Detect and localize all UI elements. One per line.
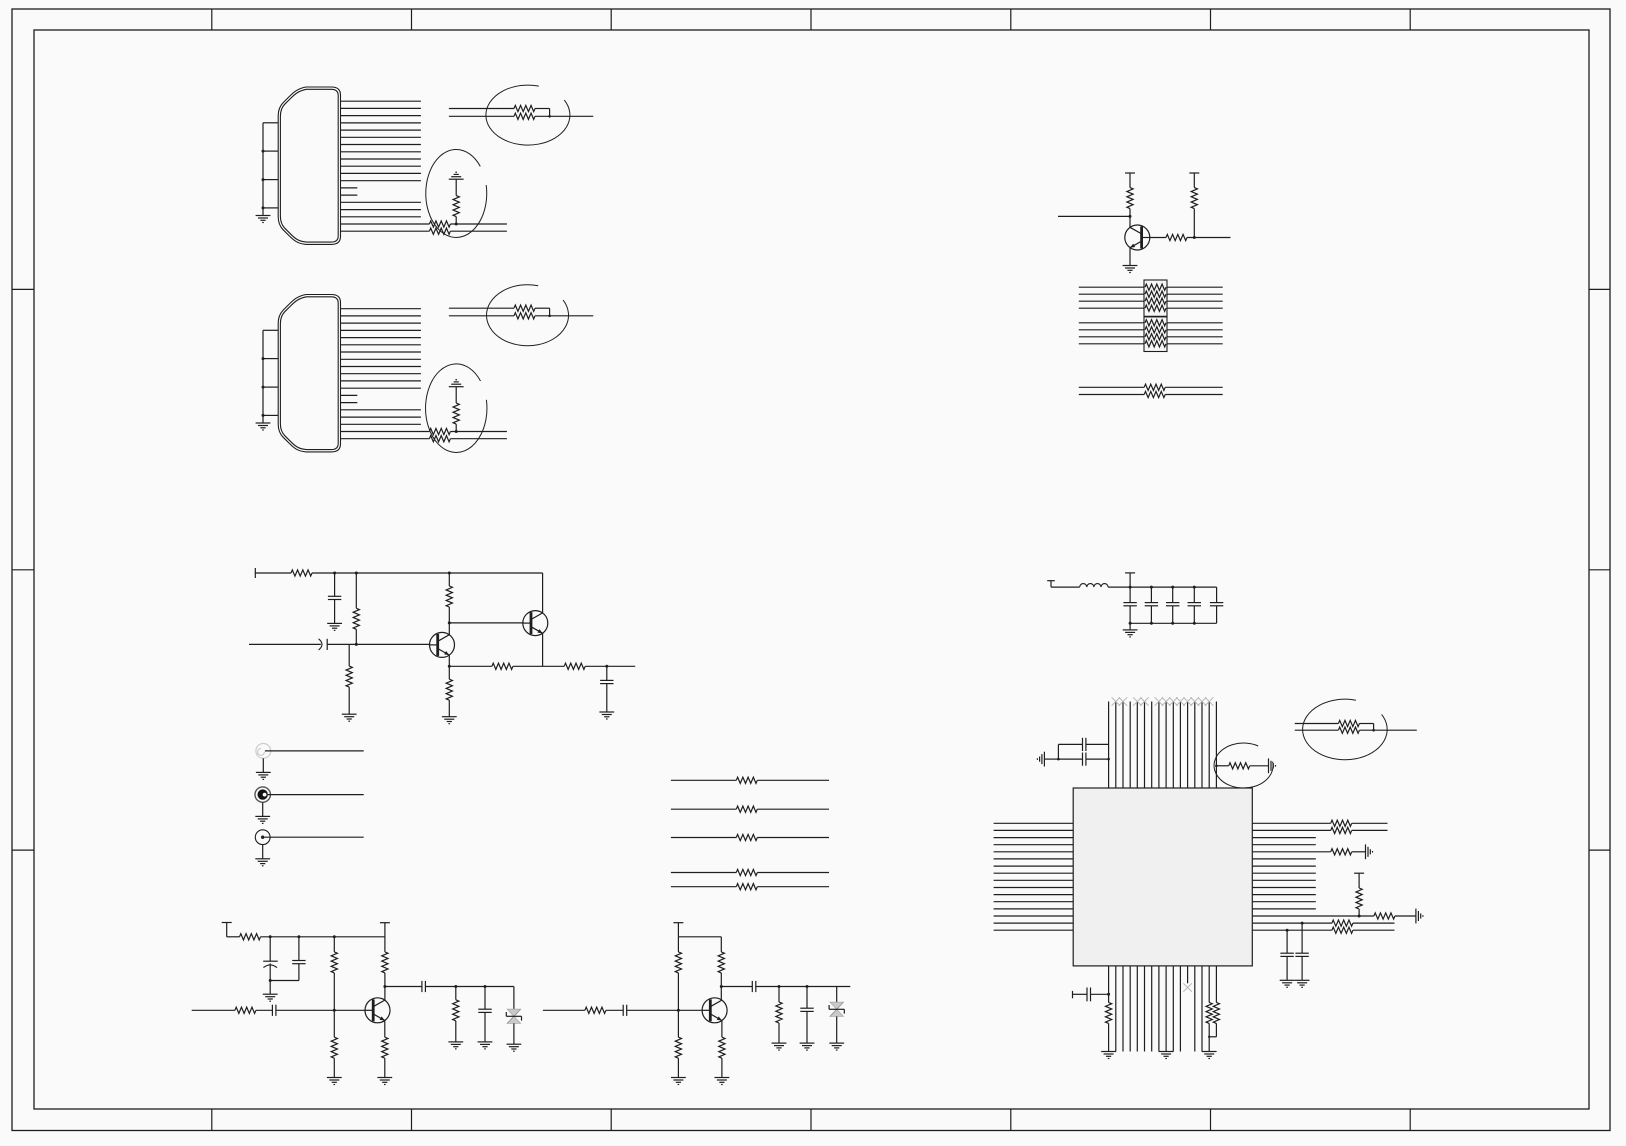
resistor R6 <box>1144 384 1165 390</box>
connector J2 pin 19 wire (right of resistor) <box>450 438 507 440</box>
transistor Q6 <box>430 632 455 657</box>
wire mid line 4 left <box>671 872 736 874</box>
ground R65 <box>772 1042 787 1044</box>
connector J1 shield junction dots <box>262 150 265 153</box>
wire R12 bottom to Q6 collector <box>448 607 450 635</box>
transistor Q7 <box>523 611 548 636</box>
no-connect x on U1 top pin 2 <box>1112 697 1120 705</box>
resistor R53 (input series) <box>235 1007 256 1013</box>
wire R11 top lead <box>355 573 357 608</box>
resistor R33 (pull-up, vertical) <box>1356 888 1362 909</box>
wire R61 bottom <box>720 973 722 1001</box>
highlight ellipse callout-A <box>486 85 570 145</box>
resistor R54 (emitter) <box>382 1037 388 1058</box>
wire mid line 5 right <box>757 886 829 888</box>
ground R13 <box>342 713 357 715</box>
wire C32 right lead <box>1091 993 1109 995</box>
junction dot amp1 base node <box>333 1009 336 1012</box>
connector J1 pin 7 <box>341 144 421 146</box>
wire R7 line left <box>1079 394 1144 396</box>
wire C34 left lead <box>1058 743 1082 745</box>
junction dot out C62 <box>806 985 809 988</box>
U1 right pin 11 <box>1252 894 1316 896</box>
wire C31 top lead <box>1301 923 1303 953</box>
wire Q5 collector to base-junction <box>1129 209 1131 228</box>
resistor lower callout-A <box>514 113 535 119</box>
wire RN line 2 right <box>1167 293 1223 295</box>
wire J3 signal <box>265 750 364 752</box>
connector J2 pin 11 <box>341 380 421 382</box>
junction dot callout-C <box>1372 729 1375 732</box>
wire Q6 collector to Q7 base <box>449 622 523 624</box>
U1 bottom pin 6 <box>1144 966 1146 1052</box>
wire lower right callout-C <box>1359 729 1416 731</box>
wire R5c top <box>1193 173 1195 188</box>
connector J2 shield ground <box>256 422 271 424</box>
ground filter <box>1123 629 1138 631</box>
ground bottom pin 15 <box>1202 1051 1217 1053</box>
wire R-J2 bottom lead <box>455 424 457 431</box>
connector J1 body outline outer <box>278 87 340 244</box>
resistor R56 (load) <box>453 1000 459 1021</box>
U1 bottom pin 15 wire <box>1208 966 1210 1003</box>
capacitor C22 <box>1166 602 1179 604</box>
wire C31 bottom lead <box>1301 956 1303 980</box>
junction dot R-J2 <box>455 430 458 433</box>
resistor RN element 6 <box>1145 327 1166 333</box>
no-connect x on U1 top pin 9 <box>1162 697 1170 705</box>
wire R56 bottom <box>455 1021 457 1042</box>
resistor RN element 5 <box>1145 320 1166 326</box>
resistor R35 (pin15 series) <box>1332 920 1353 926</box>
wire J5 signal <box>264 836 363 838</box>
junction dot Q5 input <box>1129 215 1132 218</box>
wire RN line 4 left <box>1079 307 1144 309</box>
resistor RN element 2 <box>1145 291 1166 297</box>
wire C22 top lead <box>1172 587 1174 603</box>
capacitor C54 <box>478 1008 491 1010</box>
U1 left pin 2 <box>994 829 1074 831</box>
connector J2 pin 10 <box>341 373 421 375</box>
resistor RN element 3 <box>1145 298 1166 304</box>
wire R60 bottom lead <box>677 973 679 1010</box>
resistor inline on J1 pin 18 <box>429 221 450 227</box>
power tap T-cap R33 <box>1354 872 1364 874</box>
U1 top pin 13 <box>1194 702 1196 789</box>
wire C24 top lead <box>1216 587 1218 603</box>
power tap T-cap filter node <box>1125 572 1135 574</box>
wire C23 top lead <box>1193 587 1195 603</box>
capacitor C60 (coupling) <box>622 1005 624 1016</box>
U1 right pin 16 wire <box>1252 929 1332 931</box>
inverted ground for R-J1 <box>449 178 464 180</box>
connector J1 body outline inner <box>280 89 338 242</box>
wire amp rail left <box>255 572 291 574</box>
U1 top pin 12 <box>1187 702 1189 789</box>
border tick top <box>1210 9 1212 30</box>
wire R65 bottom <box>778 1023 780 1043</box>
diode D1 (TVS) <box>507 1009 520 1016</box>
wire R-J1 bottom lead <box>455 217 457 224</box>
wire R6 line left <box>1079 386 1144 388</box>
connector J1 pin 9 <box>341 158 421 160</box>
wire mid line 3 left <box>671 837 736 839</box>
wire drop callout-A <box>549 109 551 117</box>
power tap left end cap amp rail <box>254 568 256 578</box>
wire R65 top lead <box>778 987 780 1003</box>
resistor R39 (bottom pin16) <box>1213 1002 1219 1023</box>
U1 bottom pin 4 <box>1129 966 1131 1052</box>
wire amp1 collector top <box>384 923 386 952</box>
wire RN line 5 left <box>1079 322 1144 324</box>
wire Q7 collector to rail <box>542 573 544 613</box>
power tap T-cap R5c <box>1189 172 1199 174</box>
U1 bottom pin 8 <box>1158 966 1160 1052</box>
border tick top <box>1010 9 1012 30</box>
wire lower right callout-A <box>535 115 593 117</box>
wire RN line 7 right <box>1167 336 1223 338</box>
connector J2 pin 8 <box>341 358 421 360</box>
capacitor C23 <box>1188 602 1201 604</box>
power tap T-cap amp2 rail <box>673 922 683 924</box>
wire filter node top <box>1108 586 1217 588</box>
connector J1 pin 11 <box>341 172 421 174</box>
resistor R36 (pin16 series) <box>1332 927 1353 933</box>
junction dot out R65 <box>778 985 781 988</box>
junction dot filter C22 <box>1171 586 1174 589</box>
U1 top pin 2 <box>1115 702 1117 789</box>
wire amp2 collector top <box>720 937 722 952</box>
connector J2 pin 2 <box>341 315 421 317</box>
no-connect x on U1 top pin 5 <box>1133 697 1141 705</box>
wire filter input drop <box>1050 581 1052 587</box>
U1 left pin 15 <box>994 922 1074 924</box>
connector J1 pin 17 <box>341 216 421 218</box>
connector J2 shield bracket <box>263 329 278 331</box>
wire R51 top lead <box>333 937 335 952</box>
U1 right pin 12 <box>1252 901 1316 903</box>
wire C12 lead <box>606 666 608 680</box>
border tick top <box>1409 9 1411 30</box>
junction dot rail R12 <box>448 572 451 575</box>
capacitor C32 plates <box>1086 988 1088 1002</box>
wire RN line 1 right <box>1167 286 1223 288</box>
wire C51 to C50 join <box>270 980 299 982</box>
border tick bottom <box>610 1109 612 1131</box>
wire C33 gnd lead <box>1044 758 1058 760</box>
connector J2 pin 13 (short) <box>341 394 358 396</box>
junction dot out node <box>605 665 608 668</box>
wire amp1 rail left <box>227 936 240 938</box>
ground right pin 14 <box>1415 909 1417 924</box>
U1 top pin 15 <box>1208 702 1210 789</box>
wire mid line 5 left <box>671 886 736 888</box>
junction dot R-J1 <box>455 223 458 226</box>
ground J3 <box>256 771 271 773</box>
wire R64 bottom <box>677 1058 679 1077</box>
U1 right pin 7 <box>1252 865 1316 867</box>
U1 left pin 3 <box>994 837 1074 839</box>
border tick bottom <box>810 1109 812 1131</box>
ground J4 <box>255 815 270 817</box>
resistor R24 (inline) <box>736 884 757 890</box>
resistor R12 (collector load) <box>446 586 452 607</box>
connector J2 pin 9 <box>341 366 421 368</box>
capacitor C51 <box>292 960 305 962</box>
wire drop callout-B <box>549 308 551 316</box>
U1 top pin 6 <box>1144 702 1146 789</box>
U1 bottom pin 15 wire lower <box>1208 1023 1210 1051</box>
wire Q5 emitter <box>1129 248 1131 266</box>
resistor R16 (Q6 emitter to gnd) <box>448 666 450 679</box>
ground C30 <box>1280 979 1295 981</box>
wire C34 up branch <box>1057 744 1059 759</box>
wire Q5 base lead right <box>1150 237 1166 239</box>
junction dot R5c bottom <box>1193 236 1196 239</box>
wire R55 bottom <box>333 1058 335 1077</box>
connector J1 pin 8 <box>341 151 421 153</box>
wire upper line callout-A <box>449 108 514 110</box>
wire R-J2 top lead <box>455 387 457 403</box>
resistor R30 (pin1 series) <box>1331 820 1352 826</box>
border tick bottom <box>1010 1109 1012 1131</box>
U1 left pin 13 <box>994 908 1074 910</box>
wire R11 bottom lead <box>355 629 357 644</box>
wire RN line 3 left <box>1079 300 1144 302</box>
wire Q8 emitter down <box>384 1021 386 1038</box>
resistor R55 (base lower) <box>333 1010 335 1037</box>
wire D2 bottom lead <box>836 1016 838 1043</box>
U1 bottom pin 16 jog wire <box>1215 1023 1217 1036</box>
border tick right <box>1589 849 1610 851</box>
wire C33 right lead <box>1086 758 1109 760</box>
wire RN line 1 left <box>1079 286 1144 288</box>
border tick bottom <box>1210 1109 1212 1131</box>
capacitor C52 (coupling) <box>271 1005 273 1016</box>
wire upper right callout-B <box>535 307 550 309</box>
border tick top <box>810 9 812 30</box>
U1 right pin 8 <box>1252 872 1316 874</box>
junction dot gnd rail 3 <box>1171 622 1174 625</box>
wire output node <box>425 986 514 988</box>
U1 right pin 1 wire <box>1252 822 1330 824</box>
capacitor C24 <box>1210 602 1223 604</box>
wire C62 top lead <box>806 987 808 1009</box>
junction dot gnd rail 4 <box>1193 622 1196 625</box>
wire RN line 8 left <box>1079 343 1144 345</box>
wire amp2 input <box>543 1009 585 1011</box>
junction dot out R56 <box>454 985 457 988</box>
wire Q9 emitter down <box>721 1021 723 1038</box>
junction dot callout-B <box>548 315 551 318</box>
U1 right pin 2 wire out <box>1352 829 1388 831</box>
wire D2 top lead <box>836 987 838 1003</box>
wire R56 top lead <box>455 987 457 1000</box>
resistor RN element 1 <box>1145 284 1166 290</box>
resistor R50 (rail series) <box>240 934 261 940</box>
ground C33/C34 (left facing) <box>1043 752 1045 767</box>
wire R63 bottom <box>721 1058 723 1077</box>
U1 left pin 10 <box>994 887 1074 889</box>
wire Q5 input line <box>1058 215 1130 217</box>
wire amp2 output <box>721 986 752 988</box>
wire upper right callout-C <box>1359 723 1373 725</box>
capacitor C33 plates <box>1082 753 1084 766</box>
junction dot Q6 collector <box>448 621 451 624</box>
junction dot pin1 caps <box>1107 993 1110 996</box>
wire C21 top lead <box>1150 587 1152 603</box>
U1 right pin 1 wire out <box>1352 822 1388 824</box>
ground D2 <box>829 1042 844 1044</box>
wire R16 bottom <box>448 700 450 717</box>
U1 right pin 15 wire out <box>1353 922 1395 924</box>
wire upper right callout-A <box>535 108 550 110</box>
junction dot R40 at pin16 <box>1215 765 1218 768</box>
wire R40 left lead <box>1216 765 1228 767</box>
U1 left pin 5 <box>994 851 1074 853</box>
power tap T-cap amp1 collector <box>380 922 390 924</box>
inverted ground for R-J2 <box>449 386 464 388</box>
wire R60 top lead <box>677 937 679 952</box>
wire lower line callout-B <box>449 315 514 317</box>
connector J1 pin 13 (short) <box>341 187 358 189</box>
highlight ellipse around J2 pull resistor <box>426 364 487 453</box>
U1 bottom pin 10 <box>1172 966 1174 1052</box>
junction dot callout-A <box>548 115 551 118</box>
connector J1 pin 4 <box>341 122 421 124</box>
capacitor C30 <box>1280 952 1293 954</box>
U1 right pin 10 <box>1252 887 1316 889</box>
wire Q5 collector top <box>1129 173 1131 188</box>
junction dot C33 branch <box>1057 758 1060 761</box>
wire lower line callout-A <box>449 115 514 117</box>
capacitor C34 plates <box>1082 738 1084 751</box>
wire upper line callout-C <box>1295 723 1339 725</box>
wire amp1 input <box>192 1009 235 1011</box>
connector J1 pin 3 <box>341 115 421 117</box>
U1 left pin 11 <box>994 894 1074 896</box>
U1 right pin 9 <box>1252 879 1316 881</box>
connector J2 pin 4 <box>341 329 421 331</box>
border tick top <box>411 9 413 30</box>
U1 left pin 7 <box>994 865 1074 867</box>
border tick left <box>12 849 34 851</box>
wire D1 bottom lead <box>513 1023 515 1044</box>
wire C21 bottom lead <box>1150 606 1152 624</box>
junction dot pin16 cap <box>1286 929 1289 932</box>
no-connect x on U1 top pin 13 <box>1191 697 1199 705</box>
resistor inline on J2 pin 18 <box>429 428 450 434</box>
wire D1 top lead <box>513 987 515 1010</box>
U1 bottom pin 12 wire <box>1187 966 1189 983</box>
U1 left pin 8 <box>994 872 1074 874</box>
wire J4 signal <box>268 794 364 796</box>
U1 right pin 15 wire <box>1252 922 1332 924</box>
connector J1 pin 18 wire (left of resistor) <box>341 223 430 225</box>
wire mid line 3 right <box>757 837 829 839</box>
wire R12 top lead <box>448 573 450 586</box>
resistor inline on J1 pin 19 <box>429 228 450 234</box>
IC U1 body <box>1073 788 1252 966</box>
power tap T-cap amp1 rail <box>222 922 232 924</box>
wire R33 top lead <box>1358 873 1360 888</box>
junction dot filter C21 <box>1150 586 1153 589</box>
resistor R32 (pin5 to gnd) <box>1331 849 1352 855</box>
resistor RN element 7 <box>1145 334 1166 340</box>
ground D1 <box>507 1043 522 1045</box>
inductor L1 <box>1080 584 1108 588</box>
wire RN line 4 right <box>1167 307 1223 309</box>
resistor R65 (load) <box>776 1002 782 1023</box>
wire C22 bottom lead <box>1172 606 1174 624</box>
junction dot rail R51 <box>333 935 336 938</box>
wire C50 bottom lead <box>269 963 271 994</box>
ground R63 <box>715 1077 730 1079</box>
wire R6 line right <box>1165 386 1223 388</box>
connector J2 pin 5 <box>341 337 421 339</box>
wire amp2 rail drop <box>677 923 679 937</box>
transistor Q5 <box>1125 225 1150 250</box>
wire C10 to ground <box>334 600 336 624</box>
highlight ellipse R40 <box>1214 743 1273 788</box>
junction dot filter C20 <box>1129 586 1132 589</box>
wire filter gnd stub <box>1129 623 1131 630</box>
connector J2 body outline inner <box>280 297 338 450</box>
resistor R5b (base series) <box>1166 234 1187 240</box>
power tap T-cap Q5 collector rail <box>1125 172 1135 174</box>
connector J2 pin 3 <box>341 322 421 324</box>
resistor R31 (pin2 series) <box>1331 827 1352 833</box>
U1 left pin 9 <box>994 879 1074 881</box>
border tick left <box>12 288 34 290</box>
connector J1 pin 5 <box>341 129 421 131</box>
wire input to C52 <box>256 1009 273 1011</box>
ground right pin 5 <box>1365 844 1367 859</box>
connector J1 pin 15 <box>341 201 421 203</box>
wire Q6 emitter down <box>448 655 450 666</box>
resistor R13 (to ground) <box>348 644 350 666</box>
connector J1 shield bracket <box>263 122 278 124</box>
wire emitter rail c <box>585 665 635 667</box>
U1 bottom pin 14 <box>1201 966 1203 1052</box>
wire filter node stub <box>1129 573 1131 603</box>
ground C31 <box>1295 979 1310 981</box>
wire R40 right lead <box>1250 765 1269 767</box>
capacitor C20 <box>1123 602 1136 604</box>
wire C52 to base <box>276 1009 365 1011</box>
U1 top pin 8 <box>1158 702 1160 789</box>
wire lower right callout-B <box>535 315 593 317</box>
wire J4 shield <box>262 802 264 816</box>
wire R7 line right <box>1165 394 1223 396</box>
no-connect x on U1 top pin 11 <box>1176 697 1184 705</box>
wire mid line 1 left <box>671 779 736 781</box>
wire C33 line <box>1058 758 1082 760</box>
resistor R63 (emitter) <box>719 1037 725 1058</box>
wire R13 bottom <box>348 687 350 714</box>
wire C62 bottom <box>806 1011 808 1043</box>
U1 left pin 1 <box>994 822 1074 824</box>
wire mid line 2 left <box>671 808 736 810</box>
wire C51 bottom lead <box>298 964 300 981</box>
resistor R34 (pin14 series) <box>1374 913 1395 919</box>
resistor R10 (rail series) <box>291 570 312 576</box>
U1 bottom pin 2 <box>1115 966 1117 1052</box>
ground bottom pin 1 <box>1101 1051 1116 1053</box>
wire amp rail <box>312 572 543 574</box>
resistor R37 (bottom pin1) <box>1106 1002 1112 1023</box>
junction dot amp1 collector <box>383 985 386 988</box>
